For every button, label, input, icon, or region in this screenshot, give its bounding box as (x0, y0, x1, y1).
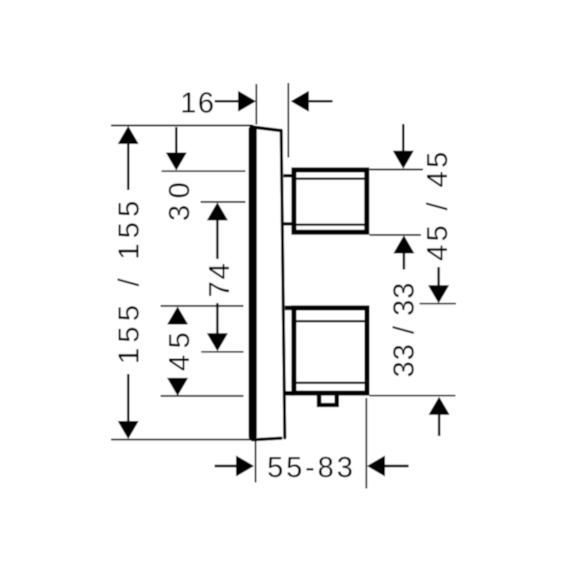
dim 16 extension line front (287, 83, 289, 158)
dim 45 down arrow at K2 bottom (167, 378, 188, 396)
svg-text:74: 74 (204, 261, 236, 297)
svg-text:155 / 155: 155 / 155 (113, 195, 145, 364)
extension line bottom of plate (155 datum) (111, 439, 255, 441)
dim 30/74 up arrow at K1 centre (207, 202, 228, 220)
dim 33/33 down arrow (437, 267, 439, 286)
dim 155/155 top arrow (118, 126, 139, 144)
svg-text:30: 30 (164, 176, 196, 221)
dim 74 down arrow at K2 centre (216, 303, 218, 334)
knob K2 inner chamfer top (296, 320, 364, 322)
svg-text:16: 16 (180, 88, 215, 120)
extension line knob K1 top (right) (370, 169, 424, 171)
knob K2 flange bottom (285, 391, 294, 396)
dim 55-83 left arrow (215, 465, 237, 467)
extension line knob K2 centre (left) (201, 351, 243, 353)
svg-text:45: 45 (164, 326, 196, 371)
dim 33/33 up arrow (429, 397, 450, 415)
extension line knob K2 top (right) (420, 303, 457, 305)
knob K2 flange top (285, 306, 294, 311)
dim 55-83 right arrow (367, 456, 385, 477)
extension line 55-83 left (255, 441, 257, 483)
dim 16 right arrow (291, 91, 309, 112)
dim 45 up arrow at K2 top (167, 307, 188, 325)
knob K1 sleeve top (284, 174, 293, 177)
svg-text:45 / 45: 45 / 45 (422, 148, 454, 261)
knob K1 inner chamfer bottom (296, 224, 364, 226)
extension line knob K2 bottom (right) (370, 395, 456, 397)
knob K1 upper body (294, 170, 367, 232)
knob K2 inner chamfer bottom (296, 382, 364, 384)
svg-text:55-83: 55-83 (267, 452, 356, 484)
svg-text:33 / 33: 33 / 33 (388, 282, 420, 378)
extension line knob K1 bottom (right) (370, 234, 422, 236)
dim 155/155 bottom arrow (127, 374, 129, 422)
plate front face (281, 130, 285, 438)
plate bottom edge (253, 438, 282, 440)
extension line top of plate (155 datum) (111, 125, 253, 127)
dim 45/45 up arrow (393, 235, 414, 253)
extension line knob K1 centre (left) (201, 201, 246, 203)
extension line knob K1 top (left) (162, 170, 246, 172)
plate back edge (249, 125, 257, 440)
dim arrow to K1 top (175, 127, 177, 154)
extension line 55-83 right (365, 398, 367, 489)
dim 16 left arrow (215, 100, 239, 102)
dim 45/45 down arrow (402, 124, 404, 152)
knob K2 bottom tab (317, 395, 339, 408)
extension line knob K2 top (left) (161, 305, 244, 307)
extension line knob K2 bottom (left) (161, 395, 244, 397)
knob K1 sleeve bottom (284, 222, 293, 225)
knob K2 lower body (294, 308, 367, 393)
plate top edge (253, 127, 281, 131)
knob K1 inner chamfer top (296, 178, 364, 180)
dim 16 extension line back (255, 84, 257, 125)
